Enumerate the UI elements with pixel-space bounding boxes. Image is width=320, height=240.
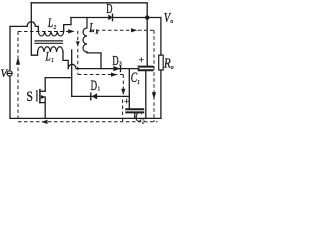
dashed drop at x=78.5 [77,31,79,75]
svg-text:o: o [170,18,173,25]
wire input to L2 with hop over x=31.3 [10,22,38,32]
source terminal circle [7,71,12,76]
arrow down at x=123.3 [121,89,125,95]
MOSFET S source lead [40,97,45,118]
core bars [35,41,63,43]
dashed loop arrowheads [16,28,156,124]
svg-text:L: L [45,48,51,63]
diode D1 [92,93,98,99]
wire L1 left terminal to top rail vertical [31,3,37,55]
capacitor C1 [139,67,153,71]
svg-text:1: 1 [51,57,54,64]
dashed current loops [18,30,158,122]
dashed loop left vertical [17,32,19,122]
wire resistor bottom to bottom rail [160,70,162,118]
wire mid vertical under hop to D1 row [71,50,73,96]
svg-text:D: D [112,54,118,69]
wire C1 bottom to bottom rail [145,71,147,118]
svg-text:+: + [139,56,144,66]
MOSFET S body arrow [41,95,46,99]
diode D2 [108,14,112,20]
arrow down on right dashed [152,92,156,99]
svg-text:1: 1 [137,79,140,86]
arrow up on left dashed [16,57,20,65]
wire D1 row [72,69,130,109]
svg-text:D: D [106,2,112,17]
resistor Ro body [159,55,164,70]
svg-text:2: 2 [54,24,57,31]
wire right branch to resistor [160,18,162,56]
wire L1 right terminal down with hop over x=71.7 [63,52,139,69]
dashed right vertical [153,30,155,122]
arrow left on bottom dashed [41,120,47,124]
inductor L2 top winding [38,31,63,36]
svg-text:k: k [96,29,99,36]
arrow right on top-left dashed [68,29,74,33]
dashed loop top horizontal left [18,31,73,33]
wire L2 right to diode row [64,18,71,32]
node output junction [145,15,149,19]
dashed bottom horizontal [18,121,158,123]
arrow down at x=78.5 [76,41,80,46]
MOSFET S drain lead [40,90,45,92]
wire diode row [71,17,161,19]
svg-text:L: L [47,15,53,30]
svg-text:S: S [26,89,33,105]
arrow right on mid dashed [111,73,117,77]
arrow right on top-right dashed [131,28,138,32]
capacitor C2 [126,109,143,112]
wire output node down to C1 [146,18,148,66]
svg-text:1: 1 [98,87,100,93]
inductor L1 bottom winding [38,47,63,52]
dashed top horizontal right [90,29,154,31]
inductor Lk vertical winding [83,18,87,53]
wire drain branch [45,78,71,92]
dashed mid horizontal [78,74,124,76]
wire C2 bottom to bottom rail [134,113,136,118]
MOSFET S gate bar [36,91,38,101]
dashed drop at x=123.3 upper [122,75,124,93]
diode D3 [113,66,120,71]
wire bottom rail [10,117,161,119]
wire Lk bottom to D3 row [87,52,101,69]
dashed drop at x=123.3 lower [122,100,124,122]
svg-text:3: 3 [119,62,121,68]
MOSFET S channel bar [39,90,41,103]
wire top from L1-left branch to output node [31,3,147,16]
svg-text:D: D [91,78,97,94]
wire input left rail [9,27,11,119]
svg-text:o: o [171,64,174,71]
svg-text:L: L [88,20,94,35]
svg-text:+: + [124,98,129,108]
